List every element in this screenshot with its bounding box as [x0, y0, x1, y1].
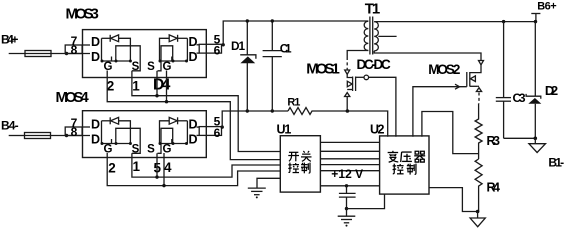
MOS4 left FET symbol	[102, 128, 141, 153]
wire +12V rail	[320, 185, 379, 187]
wire pin8 MOS3	[67, 53, 91, 55]
fuse F1	[25, 51, 67, 57]
svg-text:+12 V: +12 V	[331, 167, 363, 181]
U1 label	[277, 122, 292, 136]
junction dot D1 top	[246, 19, 249, 22]
pin 5 label MOS4	[214, 115, 221, 129]
svg-text:D: D	[91, 50, 100, 64]
wire MOS1 gate to U2	[369, 77, 396, 136]
wire MOS3 pin5 stub	[156, 71, 158, 96]
R4 label	[487, 181, 501, 195]
junction dot MOS3 pin5/6	[222, 43, 225, 46]
+12 V label	[331, 167, 363, 181]
MOS4 left FET source label S	[132, 144, 140, 156]
MOS4 left FET gate label G	[104, 144, 113, 156]
low rail junction dot D1	[246, 109, 249, 112]
node B4-	[1, 118, 19, 132]
svg-text:1: 1	[132, 159, 140, 174]
svg-text:6: 6	[214, 126, 221, 140]
MOS4 right FET drain labels	[189, 118, 198, 147]
MOS4 package box	[83, 111, 207, 158]
svg-text:S: S	[132, 144, 140, 156]
svg-text:B4-: B4-	[1, 118, 19, 132]
MOS3 right FET gate label G	[163, 61, 172, 73]
junction dot MOS4 pin7/8	[65, 134, 68, 137]
transistor MOS2	[467, 61, 484, 104]
wire MOS4 pin5 stub	[156, 153, 158, 177]
wire source bus MOS3 (pins 1,5) to U1	[132, 71, 280, 152]
pin label 5 MOS4 bottom	[154, 160, 162, 175]
svg-text:2: 2	[107, 79, 115, 94]
svg-text:B4+: B4+	[1, 33, 18, 47]
R1 label	[287, 97, 300, 109]
junction dot MOS3 pin7/8	[65, 52, 68, 55]
diode D2	[526, 22, 541, 139]
MOS3 left FET gate label G	[104, 61, 113, 73]
MOS4 right FET gate label G	[163, 144, 172, 156]
ground U1	[248, 188, 266, 198]
pin 8 label MOS4	[71, 125, 78, 139]
svg-text:1: 1	[132, 79, 140, 94]
U2 label	[370, 122, 385, 136]
MOS4 right FET body diode	[160, 117, 188, 143]
wire MOS2 gate to U2	[413, 84, 467, 137]
wire U2 to R4 bottom	[429, 188, 478, 212]
wires U1 to U2	[320, 142, 379, 170]
svg-text:MOS1: MOS1	[306, 61, 340, 78]
MOS3 right FET body diode	[160, 35, 188, 61]
svg-text:D4: D4	[153, 77, 171, 94]
MOS3 right FET source label S	[147, 61, 155, 73]
pin label 4 MOS4 bottom	[164, 160, 172, 175]
svg-text:R3: R3	[487, 134, 501, 148]
svg-text:D2: D2	[545, 83, 558, 98]
svg-text:D: D	[91, 118, 100, 132]
MOS4 right FET source label S	[147, 144, 155, 156]
junction dot C3 top	[502, 20, 505, 23]
MOS3 left FET source label S	[132, 61, 140, 73]
svg-text:T1: T1	[365, 1, 380, 18]
C3 label	[513, 91, 526, 105]
svg-text:D: D	[91, 35, 100, 49]
wire MOS3 output to top rail	[223, 21, 368, 45]
MOS4 right FET rail dots	[159, 142, 189, 145]
MOS3 left FET body diode D	[102, 35, 131, 61]
ground arrow R4	[470, 212, 485, 227]
junction dot MOS1 source node	[346, 109, 350, 113]
wire MOS3 pin4 stub	[166, 71, 168, 102]
svg-text:6: 6	[214, 44, 221, 58]
MOS4 pins 5/6 wires	[197, 127, 223, 136]
capacitor C2 (+12V decoupling)	[339, 186, 356, 209]
svg-text:MOS3: MOS3	[66, 6, 99, 23]
DC-DC label	[357, 57, 391, 72]
resistor R1	[288, 108, 347, 115]
node B6+ terminal	[531, 14, 540, 22]
R3 label	[487, 134, 501, 148]
svg-text:R1: R1	[287, 97, 300, 109]
wire C2 node to U2 bottom	[347, 194, 385, 209]
box U1 switch control	[280, 136, 320, 192]
svg-text:8: 8	[71, 125, 78, 139]
MOS4 left FET drain labels	[91, 118, 100, 147]
MOS3 right FET symbol	[158, 46, 188, 71]
junction dot R4 bottom	[476, 210, 480, 214]
wire pin7 frame MOS4	[65, 127, 82, 136]
wire C3 bottom to B1- node	[504, 137, 536, 139]
svg-text:C1: C1	[280, 41, 292, 55]
svg-text:S: S	[132, 61, 140, 73]
wire MOS4 pin4 stub	[163, 153, 165, 186]
wire MOS4 output to low rail	[222, 111, 288, 127]
T1 label	[365, 1, 380, 18]
MOS3 package box	[83, 30, 207, 78]
MOS3 label	[66, 6, 99, 23]
resistor R3	[475, 104, 482, 160]
MOS3 right FET rail dots	[159, 60, 189, 63]
junction dot gate bus MOS3	[165, 100, 168, 103]
svg-text:D1: D1	[231, 39, 245, 53]
diode D1	[240, 21, 256, 111]
transformer T1 secondary coil	[374, 22, 378, 51]
svg-text:D: D	[189, 133, 198, 147]
junction dot B1- node	[534, 137, 538, 141]
wire B4+ feed	[9, 53, 25, 55]
pin 6 label MOS4	[214, 126, 221, 140]
MOS2 label	[428, 62, 460, 77]
svg-text:B1-: B1-	[548, 155, 564, 169]
junction dot source bus MOS3	[155, 94, 158, 97]
fuse F2	[25, 133, 67, 139]
U1 text	[288, 151, 311, 173]
transformer T1 center tap stub	[378, 35, 396, 37]
MOS4 left FET drain bus	[101, 121, 103, 144]
C1 label	[280, 41, 292, 55]
U2 text	[388, 151, 426, 175]
svg-text:4: 4	[164, 160, 172, 175]
junction dot MOS4 pin5/6	[221, 125, 224, 128]
pin 1 label MOS3	[132, 79, 140, 94]
low rail junction dot C1	[271, 109, 274, 112]
svg-text:D: D	[91, 133, 100, 147]
junction dot D2 top	[534, 20, 537, 23]
wire gate bus MOS4 (pins 2,4) to U1	[107, 153, 280, 186]
transistor MOS1	[345, 57, 369, 112]
pin 8 label MOS3	[71, 43, 78, 57]
MOS1 label	[306, 61, 340, 78]
D2 label	[545, 83, 558, 98]
svg-text:2: 2	[108, 160, 116, 175]
wire U2 feedback from divider	[422, 112, 479, 154]
pin 2 label MOS4	[108, 160, 116, 175]
capacitor C3	[496, 22, 511, 139]
pin label D4 MOS3	[153, 77, 171, 94]
junction dot below C2	[345, 207, 348, 210]
wire B4- feed	[9, 135, 25, 137]
svg-text:G: G	[104, 144, 113, 156]
svg-text:MOS2: MOS2	[428, 62, 460, 77]
MOS4 label	[56, 89, 90, 106]
box U2 transformer control	[380, 136, 429, 194]
pin 7 label MOS4	[71, 116, 78, 130]
wire pin7 frame MOS3	[65, 45, 82, 54]
node B6+	[537, 0, 557, 12]
MOS3 left FET rail dots	[101, 60, 132, 63]
junction dot source bus MOS4	[155, 175, 158, 178]
junction dot +12V	[345, 184, 348, 187]
svg-text:DC-DC: DC-DC	[357, 57, 391, 72]
MOS4 left FET rail dots	[101, 142, 132, 145]
wire secondary bottom to MOS2 drain	[374, 51, 481, 60]
capacitor C1	[263, 21, 282, 111]
resistor R4	[475, 159, 482, 212]
wire U1 ground lead	[257, 178, 280, 188]
svg-text:G: G	[104, 61, 113, 73]
pin 1 label MOS4	[132, 159, 140, 174]
MOS3 left FET drain labels	[91, 35, 100, 64]
junction dot gate bus MOS4	[162, 184, 165, 187]
top rail secondary to B6+	[374, 21, 536, 23]
pin 6 label MOS3	[214, 44, 221, 58]
MOS4 right FET symbol	[158, 128, 188, 153]
pin 7 label MOS3	[71, 34, 78, 48]
svg-text:D: D	[189, 35, 198, 49]
svg-text:MOS4: MOS4	[56, 89, 90, 106]
wire source bus MOS4 (pins 1,5) to U1	[132, 153, 280, 177]
svg-text:U1: U1	[277, 122, 292, 136]
svg-text:U2: U2	[370, 122, 385, 136]
MOS3 right FET drain labels	[189, 35, 198, 64]
svg-text:S: S	[147, 61, 155, 73]
MOS3 pins 5/6 wires	[197, 44, 224, 53]
svg-text:S: S	[147, 144, 155, 156]
MOS4 left FET body diode	[102, 117, 131, 143]
wire gate bus MOS3 (pins 2,4) to U1	[107, 71, 280, 160]
svg-text:R4: R4	[487, 181, 501, 195]
svg-text:D: D	[189, 118, 198, 132]
wire pin8 MOS4	[67, 135, 91, 137]
transformer T1 primary coil	[347, 21, 368, 56]
MOS4 right FET drain bus	[186, 121, 188, 144]
node B4+	[1, 33, 18, 47]
node B1-	[548, 155, 564, 169]
MOS3 right FET drain bus	[186, 38, 188, 61]
svg-text:8: 8	[71, 43, 78, 57]
pin 5 label MOS3	[214, 33, 221, 47]
D1 label	[231, 39, 245, 53]
svg-text:C3: C3	[513, 91, 526, 105]
wire MOS1 source node to U2	[347, 111, 387, 137]
MOS3 left FET symbol	[102, 46, 141, 71]
MOS3 left FET drain bus	[101, 38, 103, 61]
svg-text:B6+: B6+	[537, 0, 557, 12]
pin 2 label MOS3	[107, 79, 115, 94]
svg-text:D: D	[189, 50, 198, 64]
transformer T1 core	[370, 17, 373, 55]
ground below C2	[338, 209, 356, 227]
junction dot C1 top	[271, 19, 274, 22]
ground arrow B1-	[529, 138, 546, 152]
